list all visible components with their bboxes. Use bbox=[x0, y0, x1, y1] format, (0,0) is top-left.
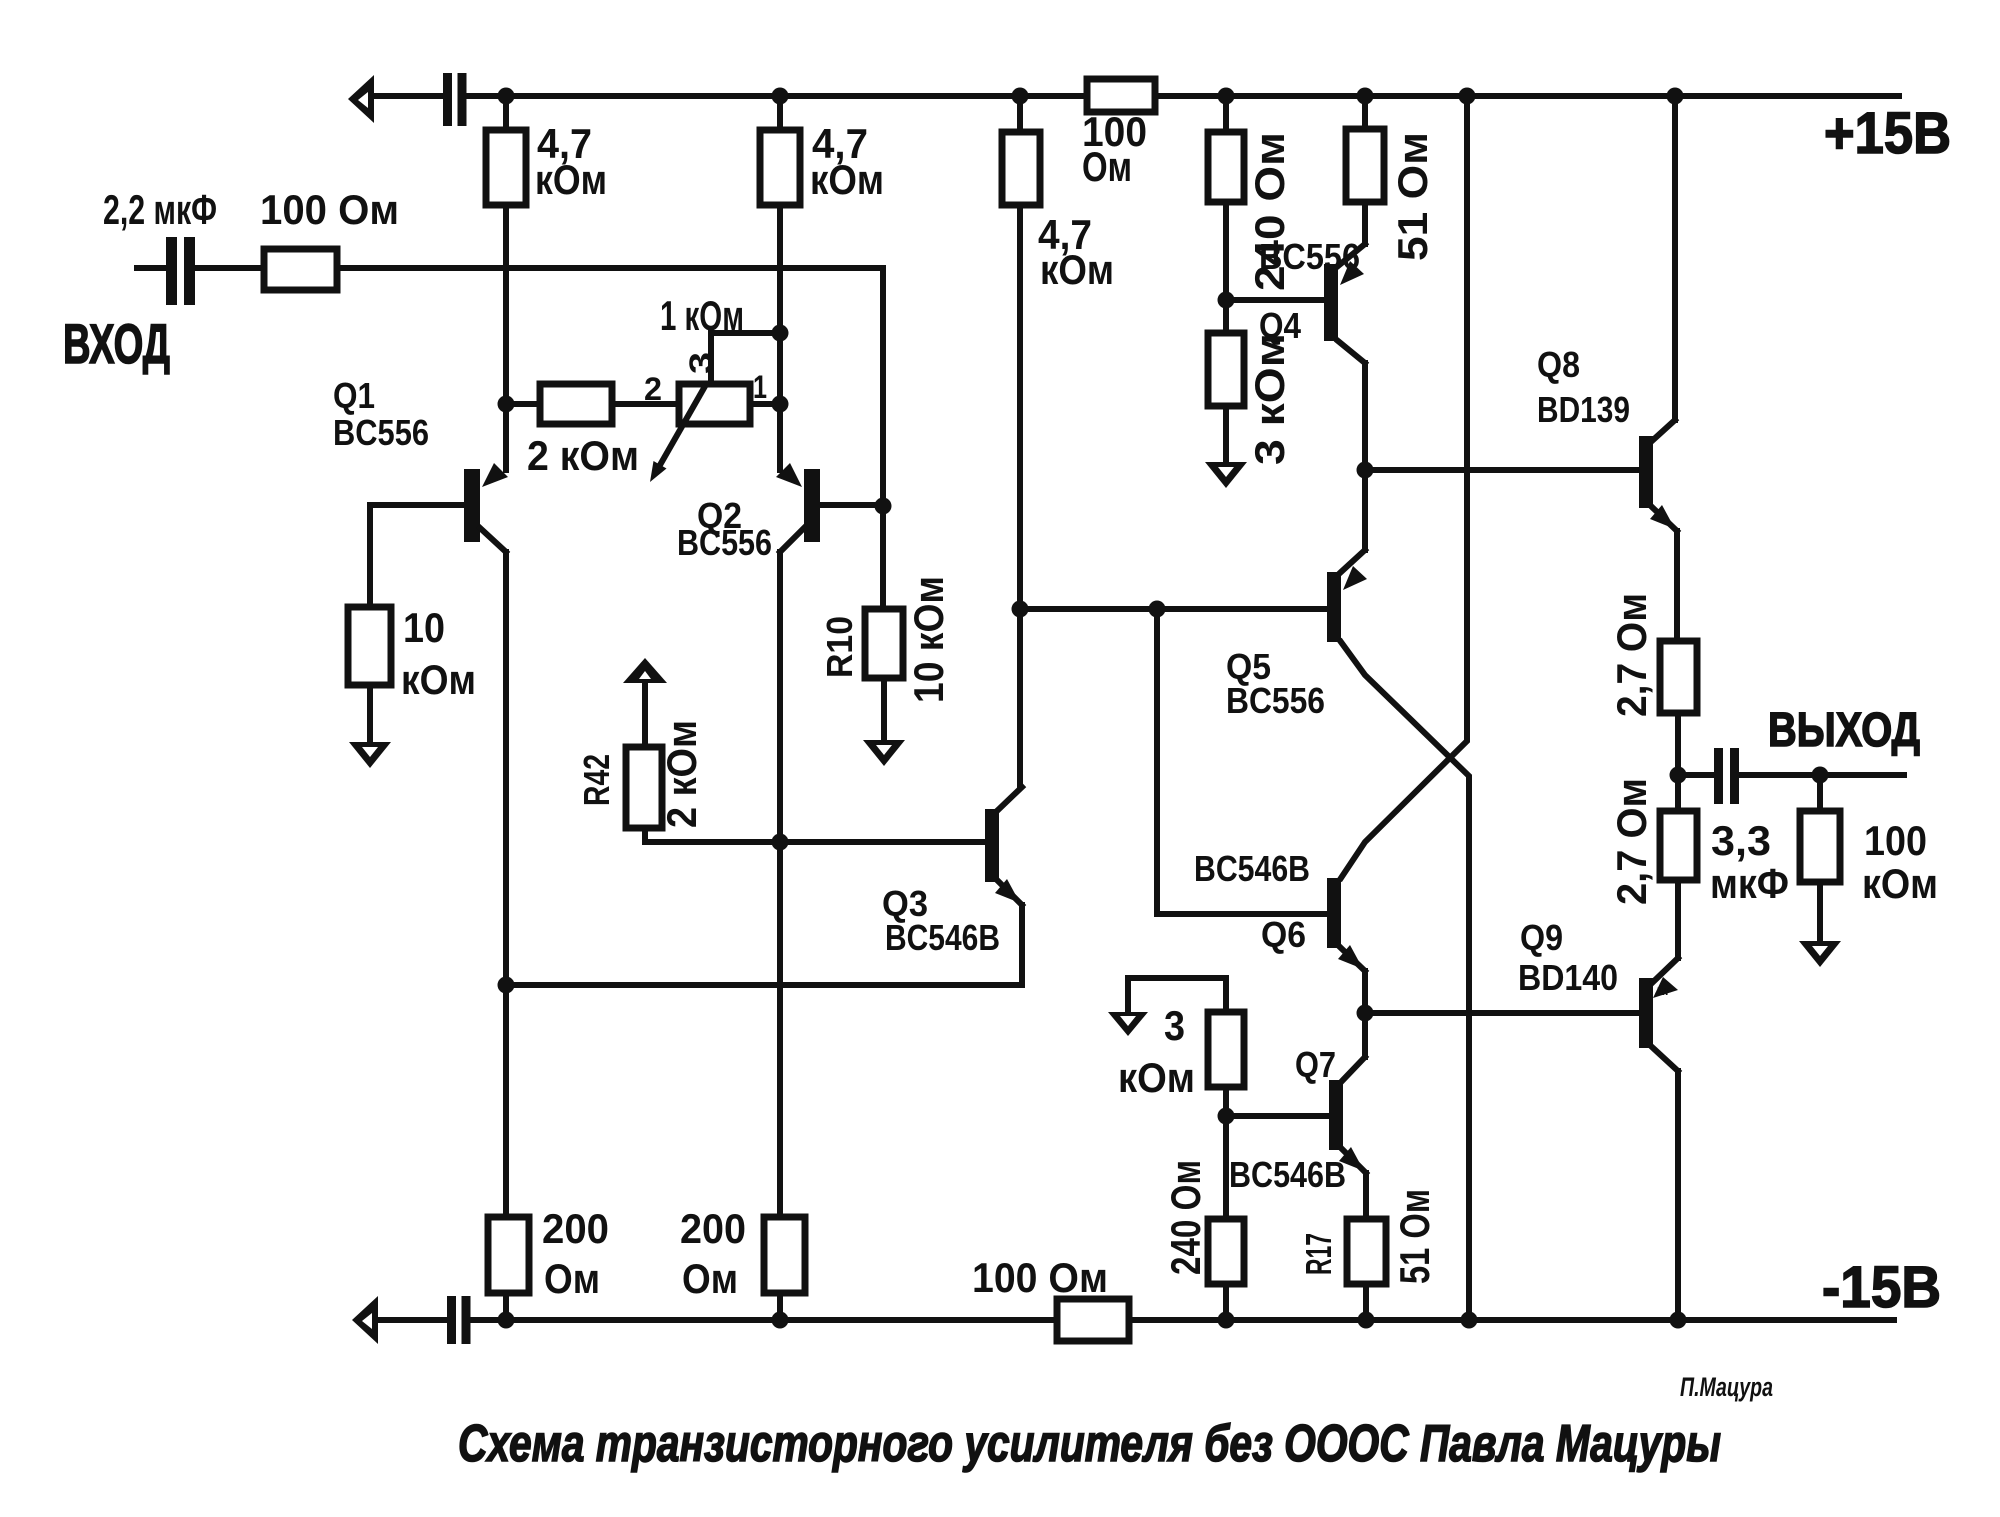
wire 2,7 upper to output node bbox=[1675, 713, 1681, 811]
wire 2,7 lower to Q9 emitter bbox=[1675, 880, 1681, 958]
svg-text:200: 200 bbox=[680, 1205, 746, 1252]
resistor 3 кОм (top) bbox=[1208, 333, 1244, 406]
resistor 4,7 кОм (second) bbox=[760, 130, 800, 205]
junction Q4 base node bbox=[1218, 292, 1235, 309]
wire R42 to Q3 base bbox=[645, 828, 985, 842]
svg-text:+15В: +15В bbox=[1824, 101, 1951, 166]
svg-text:100 Ом: 100 Ом bbox=[260, 186, 399, 233]
svg-text:Ом: Ом bbox=[1082, 143, 1132, 190]
svg-text:2 кОм: 2 кОм bbox=[527, 432, 639, 479]
svg-text:Q6: Q6 bbox=[1261, 914, 1306, 955]
svg-text:2 кОм: 2 кОм bbox=[658, 720, 705, 828]
junction Q1 collector / bias line bbox=[498, 977, 515, 994]
wire R17 to rail bbox=[1363, 1284, 1369, 1320]
resistor 2,7 Ом (lower) bbox=[1660, 811, 1697, 880]
junction bottom rail / Q9 collector bbox=[1670, 1312, 1687, 1329]
junction output node bbox=[1670, 767, 1687, 784]
junction bottom rail / 200 Ом left bbox=[498, 1312, 515, 1329]
svg-text:Q9: Q9 bbox=[1520, 917, 1563, 958]
svg-text:мкФ: мкФ bbox=[1710, 860, 1789, 907]
ground (100 кОм) bbox=[1799, 941, 1841, 967]
svg-text:ВЫХОД: ВЫХОД bbox=[1768, 704, 1920, 757]
wire Q4 base bbox=[1226, 297, 1324, 303]
junction top rail / R 4,7k second bbox=[772, 88, 789, 105]
wire VAS node to Q5 base bbox=[1020, 606, 1327, 612]
wire 51 Ом column top bbox=[1362, 96, 1368, 129]
junction Q4 collector / Q5 emitter / Q8 base bbox=[1357, 462, 1374, 479]
wire +15V rail bbox=[467, 93, 1900, 99]
svg-text:Ом: Ом bbox=[682, 1255, 738, 1302]
wire 3k to Q7 base node bbox=[1223, 1087, 1229, 1219]
wire R10 to ground bbox=[881, 678, 887, 740]
wire to Q6 base bbox=[1157, 609, 1327, 914]
svg-text:3 кОм: 3 кОм bbox=[1246, 333, 1293, 465]
wire pot terminal 1 bbox=[750, 401, 780, 407]
svg-text:240 Ом: 240 Ом bbox=[1162, 1160, 1209, 1275]
resistor 2 кОм bbox=[540, 384, 612, 424]
transistor Q8 bbox=[1639, 96, 1677, 641]
resistor 10 кОм bbox=[348, 607, 391, 685]
wire middle column bbox=[1017, 205, 1023, 787]
junction VAS node bbox=[1012, 601, 1029, 618]
svg-text:BC546B: BC546B bbox=[1229, 1154, 1346, 1195]
resistor R17 51 Ом bbox=[1347, 1219, 1386, 1284]
svg-text:R17: R17 bbox=[1298, 1233, 1339, 1275]
wire bias line to Q3 emitter bbox=[506, 982, 1022, 988]
resistor 51 Ом (top) bbox=[1346, 129, 1384, 202]
wire pot terminal 3 loop bbox=[711, 333, 780, 384]
capacitor bottom rail bbox=[447, 1296, 471, 1344]
svg-text:JIP: JIP bbox=[1655, 986, 1673, 998]
svg-text:кОм: кОм bbox=[1862, 860, 1938, 907]
transistor Q9 bbox=[1639, 958, 1678, 1320]
transistor Q1 bbox=[370, 463, 508, 552]
wire 2k to pot bbox=[612, 401, 679, 407]
svg-text:2,7 Ом: 2,7 Ом bbox=[1608, 593, 1655, 717]
wire Q1 collector column bbox=[503, 552, 509, 1217]
ground (3 кОм top) bbox=[1205, 462, 1247, 488]
wire Q1 emitter column bbox=[503, 205, 509, 470]
resistor 100 Ом (input) bbox=[264, 249, 337, 290]
wire -15V rail bbox=[471, 1317, 1895, 1323]
transistor Q7 bbox=[1329, 1013, 1366, 1219]
potentiometer 1 кОм bbox=[650, 384, 750, 482]
power arrow bottom-left bbox=[352, 1296, 447, 1344]
junction top rail / 51 Ом bbox=[1357, 88, 1374, 105]
wire Q1 base to 10k bbox=[367, 505, 373, 607]
svg-text:кОм: кОм bbox=[401, 656, 476, 703]
wire 10k to ground bbox=[367, 685, 373, 742]
svg-text:BC556: BC556 bbox=[333, 412, 429, 453]
svg-text:200: 200 bbox=[542, 1205, 609, 1252]
svg-text:кОм: кОм bbox=[810, 156, 884, 203]
junction output load tap bbox=[1812, 767, 1829, 784]
wire 240 Ом bottom to rail bbox=[1223, 1284, 1229, 1320]
svg-text:BC546B: BC546B bbox=[1194, 848, 1310, 889]
junction top rail / Q6 collector bbox=[1459, 88, 1476, 105]
junction 2k resistor tap bbox=[498, 396, 515, 413]
svg-text:Схема транзисторного усилителя: Схема транзисторного усилителя без ОООС … bbox=[458, 1415, 1721, 1473]
svg-text:Q7: Q7 bbox=[1295, 1044, 1336, 1085]
wire to Q8 base bbox=[1365, 467, 1639, 473]
svg-text:2: 2 bbox=[644, 371, 662, 407]
svg-text:3,3: 3,3 bbox=[1711, 817, 1771, 864]
capacitor top rail bbox=[443, 73, 467, 126]
svg-text:ВХОД: ВХОД bbox=[63, 312, 170, 375]
svg-text:51 Ом: 51 Ом bbox=[1389, 132, 1436, 261]
resistor 200 Ом (second) bbox=[764, 1217, 805, 1293]
junction Q2 collector / R42 line bbox=[772, 834, 789, 851]
svg-text:BD139: BD139 bbox=[1537, 389, 1630, 430]
svg-text:2,7 Ом: 2,7 Ом bbox=[1608, 778, 1655, 905]
svg-text:R10: R10 bbox=[819, 616, 860, 678]
wire 200 Ом second to rail bbox=[777, 1293, 783, 1320]
output capacitor 3,3 мкФ bbox=[1678, 748, 1904, 804]
svg-text:10 кОм: 10 кОм bbox=[905, 576, 952, 703]
resistor R42 2 кОм bbox=[626, 747, 662, 828]
svg-text:10: 10 bbox=[403, 604, 445, 651]
resistor 4,7 кОм (left) bbox=[486, 130, 526, 205]
wire 3 кОм to ground bbox=[1223, 406, 1229, 462]
junction top rail / R 4,7k left bbox=[498, 88, 515, 105]
svg-text:-15В: -15В bbox=[1822, 1255, 1941, 1320]
resistor 2,7 Ом (upper) bbox=[1660, 641, 1697, 713]
junction bottom rail / 200 Ом second bbox=[772, 1312, 789, 1329]
junction bottom rail / 240 Ом bbox=[1218, 1312, 1235, 1329]
wire right pair column top bbox=[777, 96, 783, 130]
ground (3 кОм bottom) bbox=[1108, 978, 1226, 1036]
svg-text:3: 3 bbox=[683, 352, 719, 374]
resistor 240 Ом (top) bbox=[1208, 132, 1244, 202]
wire 240 Ом to Q4 base node bbox=[1223, 202, 1229, 333]
junction top rail / Q8 collector bbox=[1667, 88, 1684, 105]
svg-text:BD140: BD140 bbox=[1518, 957, 1618, 998]
power arrow top-left bbox=[348, 75, 443, 123]
svg-text:Q1: Q1 bbox=[333, 375, 375, 416]
resistor R10 10 кОм bbox=[865, 609, 903, 678]
resistor 200 Ом (left) bbox=[488, 1217, 529, 1293]
svg-text:R42: R42 bbox=[576, 754, 617, 806]
svg-text:1 кОм: 1 кОм bbox=[660, 292, 744, 339]
svg-text:кОм: кОм bbox=[1040, 246, 1114, 293]
wire middle column top bbox=[1017, 96, 1023, 132]
svg-text:3: 3 bbox=[1164, 1002, 1185, 1049]
arrow up (R42 top) bbox=[623, 658, 667, 747]
transistor Q2 bbox=[776, 463, 883, 552]
wire Q2 base to R10 bbox=[880, 506, 886, 609]
svg-text:П.Мацура: П.Мацура bbox=[1680, 1372, 1773, 1402]
input capacitor 2,2 мкФ bbox=[137, 237, 264, 305]
transistor Q6 bbox=[1327, 96, 1467, 1013]
wire Q7 base bbox=[1226, 1113, 1329, 1119]
resistor 100 Ом (top rail) bbox=[1087, 79, 1155, 112]
junction bottom rail / R17 bbox=[1358, 1312, 1375, 1329]
wire to Q9 base bbox=[1365, 1010, 1639, 1016]
svg-text:BC556: BC556 bbox=[677, 522, 772, 563]
junction top rail / 240 Ом bbox=[1218, 88, 1235, 105]
wire 240 Ом column top bbox=[1223, 96, 1229, 132]
svg-text:100: 100 bbox=[1864, 817, 1927, 864]
ground (10k) bbox=[349, 742, 391, 768]
junction pot t1 / Q2 emitter bbox=[772, 396, 789, 413]
junction bottom rail / Q5 collector bbox=[1461, 1312, 1478, 1329]
wire input to Q2 base bbox=[337, 268, 883, 506]
transistor Q3 bbox=[985, 787, 1022, 985]
transistor Q4 bbox=[1324, 244, 1365, 470]
wire to 100 кОм bbox=[1817, 775, 1823, 811]
svg-text:100 Ом: 100 Ом bbox=[972, 1254, 1108, 1301]
svg-text:240 Ом: 240 Ом bbox=[1246, 132, 1293, 291]
wire 100 кОм to ground bbox=[1817, 882, 1823, 941]
wire left column top bbox=[503, 96, 509, 130]
svg-text:2,2 мкФ: 2,2 мкФ bbox=[103, 186, 217, 233]
junction top rail / middle column bbox=[1012, 88, 1029, 105]
resistor 4,7 кОм (middle) bbox=[1002, 132, 1040, 205]
wire 200 Ом left to rail bbox=[503, 1293, 509, 1320]
resistor 100 кОм bbox=[1800, 811, 1840, 882]
svg-text:кОм: кОм bbox=[535, 156, 607, 203]
resistor 3 кОм (bottom) bbox=[1208, 1012, 1244, 1087]
transistor Q5 bbox=[1327, 470, 1469, 1320]
wire to 2 кОм bbox=[506, 401, 540, 407]
svg-text:Q8: Q8 bbox=[1537, 344, 1580, 385]
junction Q6 emitter / Q7 collector / Q9 base bbox=[1357, 1005, 1374, 1022]
junction Q6 base tap bbox=[1149, 601, 1166, 618]
svg-text:кОм: кОм bbox=[1118, 1054, 1195, 1101]
junction Q7 base node bbox=[1218, 1108, 1235, 1125]
resistor 100 Ом (bottom rail) bbox=[1057, 1299, 1129, 1341]
junction Q2 base / input / R10 bbox=[875, 498, 892, 515]
wire Q2 collector column bbox=[777, 552, 783, 1217]
svg-text:Ом: Ом bbox=[544, 1255, 600, 1302]
resistor 240 Ом (bottom) bbox=[1208, 1219, 1244, 1284]
wire Q2 emitter column bbox=[777, 205, 783, 470]
svg-text:51 Ом: 51 Ом bbox=[1391, 1189, 1438, 1284]
wire 51 Ом to Q4 emitter bbox=[1362, 202, 1368, 244]
ground (R10) bbox=[863, 740, 905, 766]
junction pot t3 / Q2 emitter bbox=[772, 325, 789, 342]
svg-text:1: 1 bbox=[753, 369, 767, 405]
svg-text:BC546B: BC546B bbox=[885, 917, 1000, 958]
svg-text:BC556: BC556 bbox=[1226, 680, 1325, 721]
